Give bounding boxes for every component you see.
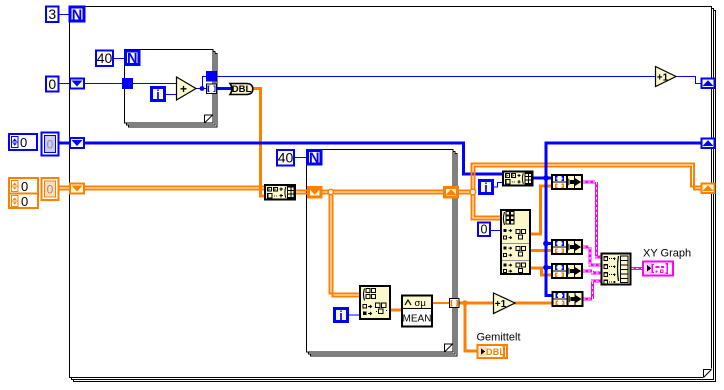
svg-text:+: +: [180, 82, 187, 96]
svg-text:0: 0: [47, 138, 54, 152]
junction dot build array output: [543, 175, 549, 181]
loop2 right shift register (orange, up arrow): [445, 188, 458, 198]
wire: 2D array from orange array control to left shift register: [59, 187, 70, 190]
wire: DBL 1D array from conversion bullet down to insert-into-array node: [252, 89, 266, 197]
add function (triangle +): [177, 77, 197, 100]
svg-text:3: 3: [48, 6, 56, 22]
wire: 2D array branch up and right to outer right shift register: [472, 164, 703, 192]
svg-text:i: i: [339, 309, 342, 323]
svg-text:0: 0: [47, 183, 54, 197]
insert into array node: [265, 185, 295, 200]
bundle node 4: [553, 292, 583, 306]
svg-text:+1: +1: [657, 73, 669, 84]
svg-text:MEAN: MEAN: [403, 314, 432, 325]
orange 2D array control (index boxes): [9, 178, 38, 209]
wire: left shift register 2 across and down to build array: [84, 143, 503, 174]
wire: branch down to Gemittelt indicator: [465, 303, 478, 351]
junction dot at add output: [200, 86, 205, 91]
wire: 1D blue array from [] tunnel to DBL conversion: [216, 87, 233, 90]
wire: constant 0 to index array node: [489, 230, 502, 232]
wire: blue array control to left shift register 2: [59, 142, 70, 145]
junction circle on 2D wire inside loop2: [328, 189, 333, 194]
junction circle on 2D wire right of loop2: [470, 189, 476, 195]
blue array control (index box): [9, 134, 37, 150]
loop1 auto-index tunnel []: [207, 84, 217, 94]
loop-iteration i terminal (outer, near build array): [480, 181, 493, 196]
svg-text:N: N: [72, 8, 82, 24]
svg-text:40: 40: [97, 50, 113, 66]
increment +1 node (bottom): [494, 293, 516, 314]
constant 0 (index array): [478, 223, 490, 237]
left shift register 1 (blue, down arrow): [70, 79, 84, 89]
wire: 2D array from left shift register to insert-into-array node: [84, 187, 266, 190]
wire: 2D array branch down into index array node: [472, 193, 503, 220]
wire: 2D branch down inside loop2 to row-index node: [330, 193, 362, 297]
wire: +1 result to bundle 4: [514, 302, 553, 305]
loop2 left shift register (orange, down arrow): [309, 188, 322, 198]
loop2 build array node: [503, 172, 533, 186]
bundle node 1: [552, 175, 582, 189]
wire: constant 3 to outer loop N: [59, 14, 70, 16]
inner for loop 1 frame: [125, 50, 218, 128]
junction dot at MEAN output: [462, 300, 467, 305]
svg-text:0: 0: [48, 76, 56, 92]
wire: cluster from bundle4 up to build-array input 4: [583, 281, 601, 299]
DBL conversion bullet: [230, 84, 253, 96]
svg-text:+1: +1: [495, 299, 507, 310]
loop2 auto-index tunnel [] (orange): [450, 299, 460, 308]
wire: 1D row from index node to MEAN: [390, 309, 403, 312]
svg-text:0: 0: [20, 135, 27, 150]
svg-text:DBL: DBL: [232, 84, 252, 95]
loop2 wire 40 to N: [294, 157, 307, 159]
index array (row extract) node: [360, 286, 390, 319]
Gemittelt DBL indicator: [478, 345, 508, 358]
wire: mean result from MEAN to loop2 tunnel: [431, 302, 450, 304]
outer loop count terminal N: [70, 7, 84, 24]
svg-text:XY Graph: XY Graph: [643, 248, 691, 260]
constant 3: [46, 6, 59, 22]
left shift register 2 (blue, down arrow): [70, 138, 84, 148]
svg-text:N: N: [309, 151, 319, 167]
wire: 2D array from loop2 right SR to junction circle: [457, 191, 474, 194]
bundle node 3: [552, 264, 582, 278]
svg-text:DBL: DBL: [486, 347, 505, 357]
XY Graph terminal: [643, 262, 673, 276]
index array node (expanded, 3 outputs): [501, 210, 530, 274]
wire: cluster array from build array to XY Graph terminal: [631, 267, 643, 270]
increment +1 node (top right): [656, 67, 677, 87]
outer right shift register top (blue, up arrow): [702, 79, 715, 89]
wire: i terminal to add node: [166, 94, 177, 96]
wire: 2D array from insert node to loop2 left shift register: [295, 191, 309, 194]
inner for loop 1 fold corner: [205, 115, 214, 124]
constant 0 (top): [46, 76, 59, 92]
wire: cluster from bundle1 to build-array input 1: [583, 182, 601, 257]
svg-text:i: i: [484, 181, 487, 195]
bundle node 2: [552, 240, 582, 254]
wire: 2D vertical over blue crossing (redraw): [472, 168, 475, 181]
loop1 left tunnel (solid blue square): [122, 78, 133, 89]
wire: loop2 i terminal to build array: [493, 183, 503, 188]
svg-text:N: N: [127, 51, 137, 67]
constant 40 (loop1): [96, 50, 113, 66]
outer right shift register middle (blue, up arrow): [702, 139, 715, 149]
loop1 right tunnel (solid blue square, last value): [206, 71, 217, 82]
svg-text:σμ: σμ: [415, 298, 426, 309]
MEAN vi node: [402, 296, 432, 327]
svg-text:0: 0: [21, 194, 28, 209]
orange array element (empty numeric, peach): [42, 178, 59, 200]
wire: loop1 tunnel to add node: [133, 83, 177, 85]
loop2 constant 40: [277, 150, 294, 166]
svg-text:Gemittelt: Gemittelt: [477, 332, 521, 344]
junction dot bundle2: [543, 241, 549, 247]
svg-text:40: 40: [278, 150, 294, 166]
wire: shift register 1 to loop1 left tunnel: [84, 83, 122, 85]
wire: constant 0 to left shift register 1: [59, 83, 70, 85]
svg-text:i: i: [156, 88, 159, 102]
wire: build array output to bundles and right shift register: [533, 143, 701, 296]
wire: index array output3 to bundle 3: [530, 268, 552, 275]
svg-text:0: 0: [21, 179, 28, 194]
wire: i terminal to row index node: [348, 314, 361, 316]
left shift register 3 (orange, down arrow): [70, 184, 84, 194]
wire: add output junction to tunnels: [195, 77, 207, 89]
inner for loop 2 fold corner: [445, 344, 454, 353]
wire: +1 output to outer right shift register: [675, 77, 702, 84]
loop2 count terminal N: [308, 151, 322, 167]
blue array element (empty numeric, lavender): [42, 133, 59, 156]
wire: scalar i result across to +1 node: [216, 76, 656, 78]
wire: cluster from bundle2 to build-array input 2: [583, 247, 601, 265]
loop2 i terminal: [335, 309, 348, 324]
outer right shift register bottom (orange, up arrow): [702, 184, 715, 194]
wire: 1D array out of loop2 tunnel to +1 node: [459, 302, 495, 305]
wire: 2D array inside loop2 from shift register to right shift register: [321, 191, 445, 194]
inner for loop 2 frame: [307, 150, 458, 357]
junction dot bundle3: [543, 265, 549, 271]
wire: index array output2 to bundle 2: [530, 249, 552, 252]
svg-text:0: 0: [481, 223, 488, 237]
loop1 i terminal: [152, 88, 165, 103]
loop1 count terminal N: [126, 51, 140, 67]
wire: constant 40 to loop1 N: [113, 58, 124, 60]
build array node (cluster array, 4 inputs): [602, 254, 631, 285]
outer for loop fold corner: [704, 370, 712, 378]
wire: cluster from bundle3 to build-array input 3: [583, 271, 601, 273]
wire: index array output1 up to bundle 1: [530, 186, 552, 234]
